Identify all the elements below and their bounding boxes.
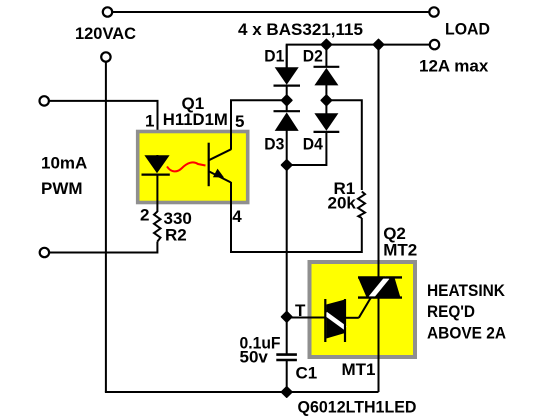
transistor base bar bbox=[208, 143, 210, 187]
svg-text:R2: R2 bbox=[165, 225, 187, 244]
triac top bar bbox=[358, 276, 402, 278]
diode D2 bbox=[325, 45, 327, 67]
diode D3 bbox=[286, 100, 288, 111]
svg-text:20k: 20k bbox=[328, 193, 357, 212]
optocoupler Q1 box bbox=[138, 132, 248, 203]
wire gate diagonal bbox=[359, 297, 371, 317]
triac box Q2 bbox=[310, 262, 416, 357]
terminal LOAD bottom bbox=[430, 40, 439, 49]
gate element body bbox=[326, 300, 345, 339]
wire pin4 down and right bbox=[231, 182, 362, 252]
diode D4 bbox=[325, 100, 327, 114]
node D2-rail bbox=[321, 39, 331, 49]
wire R1 bottom bbox=[361, 218, 363, 253]
terminal PWM minus bbox=[40, 248, 49, 257]
terminal 120VAC bottom bbox=[101, 52, 110, 61]
transistor emitter bbox=[209, 171, 231, 182]
wire second rail bbox=[287, 45, 430, 68]
svg-text:5: 5 bbox=[235, 112, 244, 131]
svg-text:10mA: 10mA bbox=[41, 154, 87, 173]
wire PWM plus to pin1 bbox=[49, 101, 158, 156]
terminal 120VAC top bbox=[103, 7, 112, 16]
gate element white slash bbox=[326, 314, 346, 329]
wire pin2 lead bbox=[156, 175, 158, 212]
LED in opto bbox=[144, 155, 169, 173]
svg-text:D3: D3 bbox=[264, 135, 284, 154]
svg-text:50v: 50v bbox=[240, 348, 269, 367]
node T bbox=[282, 312, 292, 322]
wire pin5 up and right bbox=[231, 100, 287, 150]
wire gate stub bbox=[345, 317, 359, 319]
svg-text:120VAC: 120VAC bbox=[75, 24, 136, 43]
svg-text:HEATSINK: HEATSINK bbox=[427, 281, 506, 300]
terminal PWM plus bbox=[40, 96, 49, 105]
wire MT2 vertical bbox=[378, 45, 380, 278]
svg-text:REQ'D: REQ'D bbox=[427, 302, 475, 321]
wire T node to gate bbox=[287, 317, 326, 319]
wire PWM minus to R2 bbox=[49, 242, 157, 253]
wire left vertical rail bbox=[105, 62, 107, 392]
emitter arrow bbox=[213, 169, 224, 178]
wire MT1 vertical bbox=[378, 298, 380, 392]
gate element right bar bbox=[344, 299, 346, 342]
svg-text:4: 4 bbox=[232, 207, 242, 226]
wire pin1 through LED bbox=[156, 155, 158, 158]
svg-text:1: 1 bbox=[145, 111, 154, 130]
svg-text:D4: D4 bbox=[303, 135, 323, 154]
resistor R2 bbox=[154, 212, 161, 242]
transistor collector bbox=[209, 149, 231, 160]
resistor R1 bbox=[358, 192, 365, 219]
wire bottom rail bbox=[105, 391, 379, 393]
svg-text:MT1: MT1 bbox=[342, 360, 376, 379]
svg-text:D1: D1 bbox=[264, 47, 284, 66]
capacitor C1 bbox=[276, 353, 297, 356]
triac bottom bar bbox=[358, 296, 402, 298]
wire D4 to bridge bottom node bbox=[287, 132, 327, 165]
svg-text:LOAD: LOAD bbox=[445, 19, 490, 38]
svg-text:4 x BAS321,115: 4 x BAS321,115 bbox=[238, 20, 363, 39]
light squiggle bbox=[167, 162, 206, 171]
svg-text:PWM: PWM bbox=[41, 179, 83, 198]
node bridge bottom bbox=[282, 160, 292, 170]
svg-text:C1: C1 bbox=[296, 364, 318, 383]
wire D2-D4 node to R1 top bbox=[326, 100, 361, 190]
gate element left bar bbox=[324, 299, 326, 342]
wire top rail bbox=[113, 11, 430, 13]
diode D1 bbox=[286, 45, 288, 68]
wire bridge bottom down to C1 bbox=[286, 165, 288, 354]
svg-text:H11D1M: H11D1M bbox=[163, 110, 228, 129]
svg-text:Q6012LTH1LED: Q6012LTH1LED bbox=[298, 398, 417, 416]
triac white slash bbox=[371, 277, 388, 297]
node C1 bottom rail bbox=[282, 387, 292, 397]
node MT2-rail bbox=[373, 39, 383, 49]
svg-text:MT2: MT2 bbox=[383, 241, 417, 260]
node D2-D4 bbox=[321, 95, 331, 105]
svg-text:2: 2 bbox=[140, 205, 149, 224]
svg-text:T: T bbox=[295, 301, 306, 320]
svg-text:D2: D2 bbox=[303, 47, 323, 66]
svg-text:12A max: 12A max bbox=[419, 57, 489, 76]
node D1-D3 bbox=[282, 95, 292, 105]
terminal LOAD top bbox=[429, 7, 438, 16]
svg-text:ABOVE 2A: ABOVE 2A bbox=[427, 324, 506, 343]
triac body bbox=[358, 278, 400, 298]
